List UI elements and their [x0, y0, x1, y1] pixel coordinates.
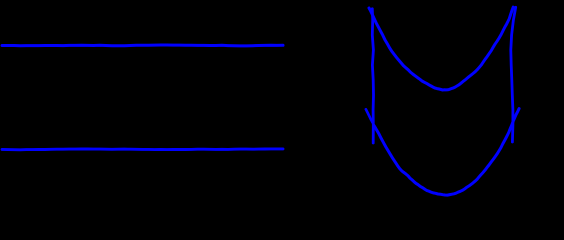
lower straight wire [2, 147, 283, 151]
upper straight wire [2, 44, 283, 48]
upper sagging wire (top curve) [369, 7, 513, 90]
left vertical drop line (down arrow shaft) [372, 9, 373, 143]
right vertical drop line (down arrow shaft) [511, 7, 516, 142]
left arrowhead barb [366, 109, 373, 122]
lower sagging wire (bottom curve) [374, 109, 519, 196]
